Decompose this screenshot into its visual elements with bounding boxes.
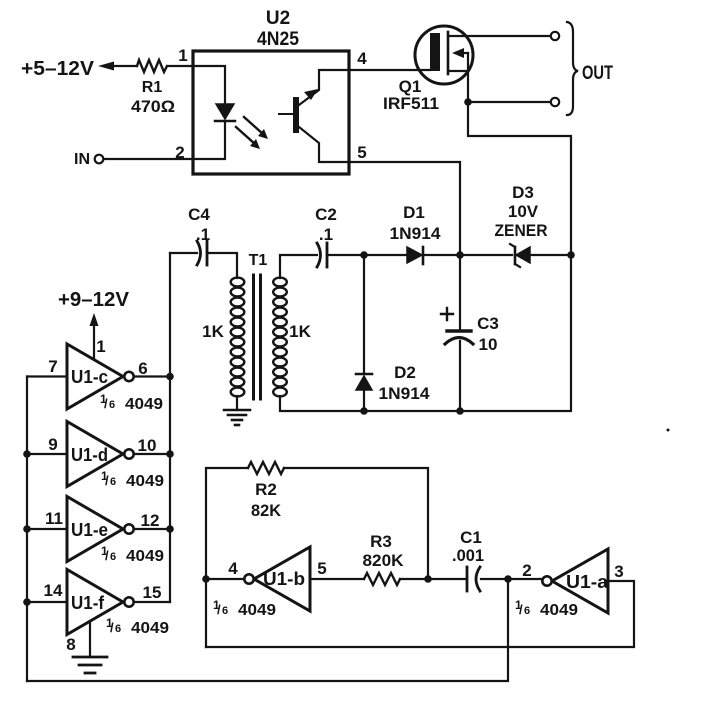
node outbus e — [166, 525, 174, 533]
wire U1-f pin8 to ground — [89, 621, 91, 657]
svg-text:4: 4 — [228, 559, 238, 578]
transformer T1 primary winding — [231, 278, 245, 397]
label 1/6 4049 (e) — [101, 544, 164, 565]
light arrow 2 — [236, 127, 255, 144]
svg-text:10: 10 — [479, 335, 498, 354]
svg-text:11: 11 — [45, 509, 63, 528]
inverter U1-e — [67, 497, 123, 562]
wire arrow to +5-12V — [114, 65, 137, 67]
Q1 channel line — [447, 32, 450, 74]
node U1-b input junction — [202, 575, 210, 583]
svg-text:820K: 820K — [363, 551, 405, 570]
wire Q1 source down to right rail — [468, 102, 571, 255]
terminal OUT lower — [551, 98, 559, 106]
wire IN to pin 2 — [104, 158, 193, 160]
svg-text:1K: 1K — [202, 322, 224, 341]
wire C3 branch upper — [459, 255, 461, 330]
svg-text:C1: C1 — [460, 528, 482, 547]
svg-text:6: 6 — [138, 359, 147, 378]
svg-text:U1-e: U1-e — [71, 520, 108, 540]
node R2-R3 junction — [424, 575, 432, 583]
svg-text:/: / — [217, 602, 221, 617]
wire C2 to D1 — [327, 254, 407, 256]
label 1/6 4049 (c) — [100, 392, 163, 413]
svg-text:U2: U2 — [266, 8, 290, 29]
inverter U1-b (points left) — [254, 547, 310, 611]
wire U2 internal anode — [193, 66, 225, 104]
svg-text:8: 8 — [66, 635, 75, 654]
terminal IN — [95, 155, 104, 164]
wire U2 internal cathode to pin 2 — [193, 121, 225, 159]
svg-text:IRF511: IRF511 — [383, 94, 439, 113]
svg-text:15: 15 — [143, 583, 162, 602]
svg-text:1: 1 — [96, 337, 105, 356]
svg-text:/: / — [110, 620, 114, 635]
wire pin5 to R3 — [310, 578, 364, 580]
wire output U1-f — [134, 601, 170, 603]
svg-text:1: 1 — [178, 46, 187, 65]
capacitor C3 plus sign — [441, 308, 453, 320]
wire input U1-f — [27, 601, 67, 603]
capacitor C1 — [466, 567, 469, 591]
svg-text:4N25: 4N25 — [257, 29, 299, 50]
svg-text:9: 9 — [48, 435, 57, 454]
Q1 drain stub and wire to OUT — [448, 35, 551, 37]
svg-text:6: 6 — [109, 399, 115, 411]
wire output U1-d — [134, 453, 170, 455]
inverter U1-a (points left) — [552, 549, 608, 613]
svg-text:/: / — [105, 548, 109, 563]
node C1 output junction — [504, 575, 512, 583]
resistor R3 — [364, 573, 400, 585]
wire input U1-d — [27, 453, 67, 455]
svg-text:6: 6 — [110, 476, 116, 488]
wire C1 to U1-a — [481, 578, 542, 580]
svg-text:D1: D1 — [403, 203, 425, 222]
svg-text:12: 12 — [141, 511, 160, 530]
wire pin4 — [206, 578, 244, 580]
svg-text:14: 14 — [44, 581, 63, 600]
diode D2 — [356, 376, 372, 390]
svg-text:C3: C3 — [477, 314, 499, 333]
svg-text:C4: C4 — [188, 205, 210, 224]
zener diode D3 — [516, 247, 530, 263]
capacitor C3 — [447, 329, 471, 332]
wire R2 right to junction — [284, 468, 428, 579]
svg-text:.001: .001 — [452, 546, 484, 565]
node outbus c — [166, 373, 174, 381]
svg-text:.1: .1 — [319, 225, 333, 244]
wire secondary top to C2 — [280, 255, 317, 278]
wire right bus top to C4 — [170, 252, 197, 254]
svg-text:5: 5 — [317, 559, 326, 578]
label 1/6 4049 (b) — [213, 598, 276, 619]
svg-text:U1-d: U1-d — [71, 445, 108, 465]
right output bus — [169, 253, 171, 602]
svg-text:R1: R1 — [142, 79, 163, 96]
wire output U1-e — [134, 528, 170, 530]
node bus e — [23, 525, 31, 533]
svg-text:3: 3 — [614, 562, 623, 581]
svg-text:4049: 4049 — [540, 602, 578, 619]
node bus d — [23, 450, 31, 458]
wire D1 to D3 — [423, 254, 512, 256]
node outbus d — [166, 450, 174, 458]
svg-text:IN: IN — [74, 151, 90, 168]
left input bus — [26, 377, 28, 682]
svg-text:1N914: 1N914 — [379, 384, 431, 403]
svg-text:/: / — [104, 396, 108, 411]
capacitor C4 — [197, 241, 201, 265]
svg-text:4049: 4049 — [125, 396, 163, 413]
wire R1 to U2 pin1 — [169, 65, 193, 67]
svg-text:6: 6 — [110, 551, 116, 563]
power arrow pin 1 — [93, 324, 95, 358]
node C3 rail junction — [456, 407, 464, 415]
phototransistor collector to pin 4 — [299, 70, 349, 105]
label 1/6 4049 (a) — [515, 598, 578, 619]
label 1/6 4049 (d) — [101, 469, 164, 490]
svg-text:R2: R2 — [255, 480, 277, 499]
svg-text:U1-f: U1-f — [71, 593, 105, 613]
wire U2 pin5 down to diode row — [349, 162, 460, 255]
svg-text:D3: D3 — [512, 183, 534, 202]
node Q1 source junction — [464, 98, 472, 106]
svg-text:U1-a: U1-a — [566, 572, 609, 592]
svg-text:4049: 4049 — [126, 548, 164, 565]
wire pin4 to Q1 gate — [349, 69, 430, 71]
wire input U1-e — [27, 528, 67, 530]
inverter U1-c — [67, 344, 123, 409]
svg-text:6: 6 — [222, 605, 228, 617]
node D1 cathode junction — [456, 251, 464, 259]
svg-text:D2: D2 — [394, 363, 416, 382]
svg-text:5: 5 — [357, 143, 366, 162]
stray mark — [667, 429, 670, 432]
transformer T1 secondary winding — [273, 278, 287, 397]
wire R3 to C1 — [400, 578, 466, 580]
svg-text:C2: C2 — [315, 205, 337, 224]
transformer T1 core — [252, 275, 255, 399]
resistor R1 — [137, 60, 167, 72]
svg-text:6: 6 — [115, 623, 121, 635]
wire C4 to T1 primary — [207, 253, 237, 278]
wire C3 lower — [459, 341, 461, 411]
svg-text:4049: 4049 — [126, 473, 164, 490]
Q1 source vertical — [467, 53, 469, 102]
svg-text:U1-c: U1-c — [71, 367, 108, 387]
node D3 right junction — [567, 251, 575, 259]
svg-text:10: 10 — [138, 436, 157, 455]
wire D2 branch — [363, 255, 365, 374]
wire oscillator output to inverter inputs — [27, 579, 508, 681]
inverter U1-f — [67, 570, 123, 635]
svg-text:4049: 4049 — [131, 620, 169, 637]
svg-text:+5–12V: +5–12V — [21, 58, 95, 80]
terminal OUT upper — [551, 32, 559, 40]
svg-text:7: 7 — [48, 357, 57, 376]
wire R2 left leg — [206, 468, 248, 647]
wire source to OUT lower — [468, 101, 551, 103]
svg-text:82K: 82K — [251, 501, 282, 520]
wire input U1-c — [27, 375, 67, 377]
svg-text:.1: .1 — [196, 225, 210, 244]
optocoupler U2 box — [193, 51, 349, 174]
diode D1 — [407, 247, 422, 263]
LED diode inside U2 — [216, 104, 234, 119]
svg-text:U1-b: U1-b — [263, 569, 305, 589]
phototransistor emitter to pin 5 — [299, 127, 349, 162]
node C2-D2 junction — [360, 251, 368, 259]
svg-text:6: 6 — [524, 605, 530, 617]
svg-text:4: 4 — [357, 49, 367, 68]
svg-text:ZENER: ZENER — [495, 221, 548, 240]
label 1/6 4049 (f) — [106, 616, 169, 637]
svg-text:4049: 4049 — [238, 602, 276, 619]
wire U1-a feedback loop — [206, 581, 634, 647]
wire output U1-c — [134, 375, 170, 377]
svg-text:10V: 10V — [508, 202, 539, 221]
OUT brace — [567, 22, 578, 115]
light arrow 1 — [244, 117, 263, 134]
node bus f — [23, 598, 31, 606]
ground U1-f — [73, 656, 107, 659]
svg-text:OUT: OUT — [582, 63, 613, 84]
inverter U1-d — [67, 422, 123, 487]
resistor R2 — [248, 462, 284, 474]
wire bottom rail of rectifier — [280, 255, 571, 411]
svg-text:T1: T1 — [249, 252, 268, 269]
wire D3 to right rail — [530, 254, 571, 256]
svg-text:+9–12V: +9–12V — [58, 289, 130, 311]
phototransistor base bar — [279, 113, 293, 115]
svg-text:2: 2 — [522, 561, 531, 580]
Q1 source stub — [448, 70, 468, 72]
svg-text:1N914: 1N914 — [390, 224, 442, 243]
capacitor C2 — [317, 243, 321, 267]
Q1 gate plate — [430, 33, 440, 71]
svg-text:/: / — [519, 602, 523, 617]
svg-text:/: / — [105, 473, 109, 488]
node D2 rail junction — [360, 407, 368, 415]
wire primary bottom to ground — [236, 396, 238, 410]
svg-text:470Ω: 470Ω — [131, 97, 175, 116]
Q1 body arrow — [461, 52, 468, 54]
transistor Q1 circle — [415, 26, 473, 84]
svg-text:1K: 1K — [289, 322, 311, 341]
ground T1 — [224, 409, 250, 412]
svg-text:R3: R3 — [370, 532, 392, 551]
